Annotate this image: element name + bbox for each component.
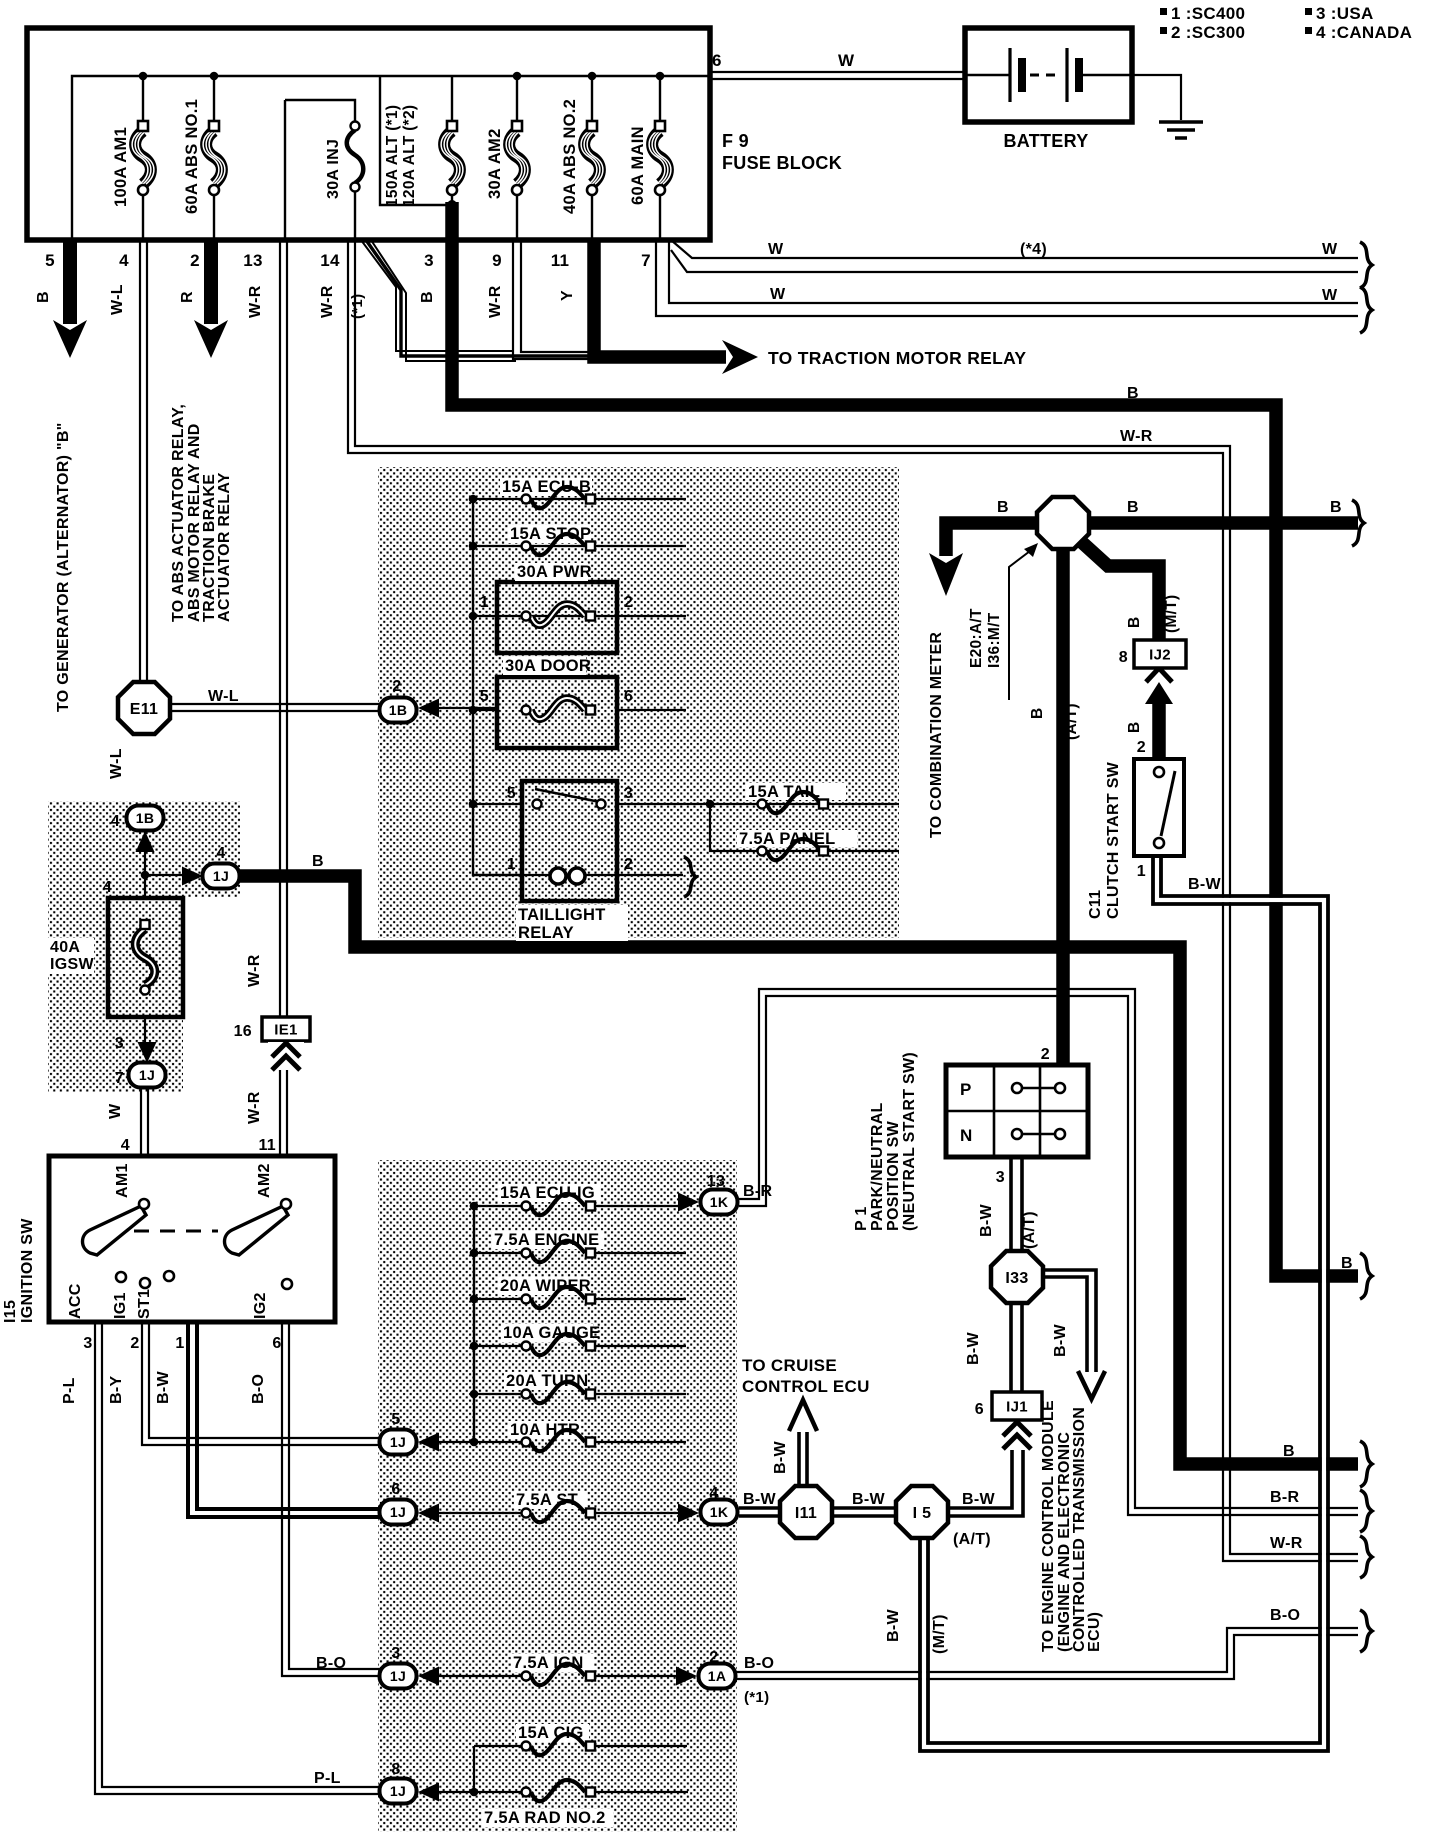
svg-text:CONTROL ECU: CONTROL ECU [742, 1377, 870, 1396]
taillight relay contact [535, 789, 600, 802]
arrow into 1J(7) [138, 1042, 157, 1063]
taillight relay coil [550, 868, 566, 884]
svg-text:TO TRACTION MOTOR RELAY: TO TRACTION MOTOR RELAY [768, 348, 1026, 368]
svg-text:E11: E11 [130, 701, 159, 718]
connector 1J pin4 [203, 864, 240, 889]
park/neutral position switch P1 [946, 1065, 1088, 1157]
fuse 100A AM1 [112, 121, 154, 207]
svg-text:B: B [1126, 617, 1143, 629]
svg-text:5: 5 [480, 688, 489, 705]
svg-text:PARK/NEUTRAL: PARK/NEUTRAL [869, 1102, 886, 1231]
arrow chevrons: IE1 feed [268, 1042, 304, 1068]
wire: thick B from ALT fuse pin3 to right edge and down [452, 202, 1358, 1276]
connector E11 [118, 682, 170, 734]
svg-text:15A CIG: 15A CIG [518, 1724, 584, 1742]
box 30A DOOR [497, 677, 617, 748]
fuse 10A HTR [508, 1421, 595, 1451]
svg-text:(M/T): (M/T) [1163, 594, 1180, 633]
arrow into 1B(2) [418, 699, 439, 718]
svg-text:W-L: W-L [108, 748, 125, 779]
fuse 15A STOP [508, 525, 595, 555]
svg-text:B-R: B-R [1270, 1489, 1299, 1506]
svg-text:I36:M/T: I36:M/T [986, 612, 1003, 668]
svg-text:B: B [997, 499, 1009, 516]
svg-text:(M/T): (M/T) [931, 1614, 948, 1654]
wire: B-W I33 right branch with down arrow (double) [1042, 1270, 1096, 1372]
wire: fuse drops inside block [143, 76, 660, 240]
svg-text:W-R: W-R [319, 285, 336, 318]
svg-text:BATTERY: BATTERY [1003, 131, 1088, 151]
wire: taillight relay coil row [522, 874, 683, 876]
svg-text:3: 3 [424, 251, 434, 270]
wire: panel fuse bus vertical [473, 499, 522, 875]
svg-text:6: 6 [272, 1335, 281, 1352]
arrow into 1K(4) [678, 1504, 699, 1523]
svg-text:B-W: B-W [1188, 876, 1221, 893]
stipple region: main fuse panel area [378, 467, 899, 938]
svg-text:20A TURN: 20A TURN [506, 1372, 588, 1390]
svg-text:1K: 1K [710, 1504, 729, 1520]
svg-text:B-W: B-W [852, 1491, 885, 1508]
svg-text:1: 1 [1137, 863, 1146, 880]
svg-text:W: W [770, 286, 786, 303]
label taillight relay [516, 905, 628, 942]
wire: 10A GAUGE row [474, 1345, 686, 1347]
fuse 60A MAIN [629, 121, 671, 205]
svg-text:13: 13 [707, 1173, 725, 1190]
legend [1160, 8, 1167, 15]
svg-text:3 :USA: 3 :USA [1316, 4, 1374, 23]
stipple region: ignition main fuse area (mid-left) [48, 801, 240, 1092]
svg-text:B-W: B-W [772, 1441, 789, 1474]
fuse 60A ABS NO.1 [183, 99, 225, 214]
connector 1J pin3 [380, 1664, 417, 1689]
svg-text:CLUTCH START SW: CLUTCH START SW [1105, 761, 1122, 919]
wire: 7.5A PANEL branch [710, 804, 899, 851]
wire: thick R arrow pin2 [204, 240, 218, 324]
wire: B-W ST1 to 1J(6) (heavy double) [188, 1322, 380, 1517]
svg-text:B: B [1127, 499, 1139, 516]
wire: B-W I11 up to cruise control arrow (double) [799, 1432, 807, 1487]
svg-text:W-R: W-R [246, 1091, 263, 1124]
svg-text:2: 2 [624, 856, 633, 873]
svg-text:16: 16 [234, 1023, 252, 1040]
svg-text:P 1: P 1 [853, 1206, 870, 1231]
stipple region: junction block area (bottom-left) [378, 1160, 737, 1832]
svg-text:40A: 40A [50, 939, 80, 956]
wire: 1B(4)/1J(4) junction node [145, 830, 184, 898]
svg-text:(A/T): (A/T) [953, 1531, 991, 1548]
svg-text:3: 3 [115, 1035, 124, 1052]
wire: 30A INJ branch, pin13 W-R exits [285, 100, 355, 240]
arrow into 1A(2) [676, 1667, 697, 1686]
wire: taillight relay contact row / 15A TAIL row [473, 803, 899, 805]
wire: W pin7 pair 2 to right edge [656, 240, 1358, 316]
svg-text:4: 4 [121, 1137, 130, 1154]
wire: 40A IGSW to 1J(7) [144, 995, 146, 1043]
ignition switch I15 [49, 1156, 335, 1322]
wire: 7.5A RAD NO.2 row from 1J(8) [438, 1791, 688, 1793]
svg-text:I11: I11 [795, 1505, 817, 1522]
svg-text:4: 4 [119, 251, 129, 270]
svg-text:4: 4 [103, 879, 112, 896]
svg-text:15A ECU-IG: 15A ECU-IG [500, 1184, 595, 1202]
svg-text:7.5A ST: 7.5A ST [516, 1491, 578, 1509]
svg-text:60A MAIN: 60A MAIN [629, 126, 647, 205]
continuation braces right edge [1360, 242, 1372, 288]
arrow into 1J(8) [418, 1783, 439, 1802]
svg-text:6: 6 [391, 1481, 400, 1498]
svg-text:B: B [1283, 1443, 1295, 1460]
fuse 30A INJ [325, 122, 363, 200]
ignition AM2 terminal + wiper [225, 1206, 289, 1255]
svg-text:6: 6 [975, 1401, 984, 1418]
wire: W-R pin9 (double) [513, 240, 590, 359]
wire: 30A PWR row [473, 615, 686, 617]
wire: 7.5A ENGINE row [474, 1252, 686, 1254]
svg-text:I15: I15 [2, 1300, 19, 1323]
svg-text:13: 13 [243, 251, 263, 270]
svg-text:30A AM2: 30A AM2 [486, 128, 504, 199]
svg-text:2: 2 [709, 1649, 718, 1666]
svg-text:TO COMBINATION METER: TO COMBINATION METER [928, 632, 945, 838]
svg-text:F 9: F 9 [722, 131, 749, 151]
svg-text:B: B [1341, 1255, 1353, 1272]
connector 1K pin4 [701, 1500, 738, 1525]
svg-text:W: W [107, 1103, 124, 1119]
svg-text:(*1): (*1) [744, 1689, 769, 1706]
svg-text:B-W: B-W [965, 1332, 982, 1365]
fuse 7.5A PANEL [737, 830, 857, 860]
wire: 15A ECU-IG row to 1K(13) [474, 1205, 678, 1207]
wire: 20A TURN row [474, 1393, 686, 1395]
svg-text:1J: 1J [213, 868, 229, 884]
wire: W-R pin13 continue IE1 to ignition AM2 (double) [280, 1070, 287, 1156]
connector I11 [780, 1486, 832, 1538]
svg-text:ACTUATOR RELAY: ACTUATOR RELAY [216, 472, 233, 622]
svg-text:IE1: IE1 [274, 1022, 297, 1039]
fuse 7.5A ENGINE [492, 1231, 604, 1262]
svg-text:7.5A ENGINE: 7.5A ENGINE [494, 1231, 599, 1249]
svg-text:I 5: I 5 [913, 1505, 932, 1522]
fuse 30A AM2 [486, 121, 528, 199]
arrow into 1J(4) [182, 867, 203, 886]
svg-text:E20:A/T: E20:A/T [968, 608, 985, 668]
svg-text:8: 8 [1119, 649, 1128, 666]
ground [1159, 122, 1203, 138]
wire: (*1) ALT option bundle [361, 240, 512, 351]
svg-text:1 :SC400: 1 :SC400 [1171, 4, 1245, 23]
wire: P-L ACC to 1J(8) (double) [95, 1322, 380, 1794]
fuse 150A/120A ALT [441, 121, 463, 195]
svg-text:30A INJ: 30A INJ [325, 139, 342, 199]
svg-text:1: 1 [480, 594, 489, 611]
fuse 15A ECU-B [500, 478, 595, 508]
wire: 20A WIPER row [474, 1298, 686, 1300]
svg-text:150A ALT (*1): 150A ALT (*1) [384, 105, 401, 207]
connector 1J pin8 [380, 1779, 417, 1804]
svg-text:(NEUTRAL START SW): (NEUTRAL START SW) [901, 1052, 918, 1231]
svg-text:B-O: B-O [744, 1655, 774, 1672]
svg-text:7.5A IGN: 7.5A IGN [513, 1654, 584, 1672]
wire: B-O IG2 to 1J(3) (double) [282, 1322, 380, 1676]
svg-text:7.5A PANEL: 7.5A PANEL [739, 830, 836, 848]
clutch start switch C11 [1134, 759, 1184, 856]
svg-text:W-L: W-L [109, 284, 126, 315]
svg-text:W-R: W-R [246, 954, 263, 987]
svg-text:4: 4 [111, 813, 120, 830]
wire: B-W IJ1 to I33 (double) [1011, 1302, 1022, 1392]
wire: bus inside fuse block [72, 76, 710, 240]
svg-text:2: 2 [624, 594, 633, 611]
wire: W pin6 fuse block to battery (double) [710, 72, 965, 79]
connector I33 [991, 1251, 1043, 1303]
wire: B-W (A/T) I5 up to IJ1 (double) [946, 1450, 1023, 1516]
svg-text:P: P [960, 1080, 972, 1099]
junction dots on bus [139, 72, 148, 81]
wire: 7.5A ST row 1J(6) to 1K(4) [438, 1512, 678, 1514]
svg-text:IJ2: IJ2 [1149, 647, 1171, 664]
wire: 15A ECU-B row [473, 498, 686, 500]
wire: ignition switch internal terminals [98, 1156, 287, 1322]
wire: CIG/RAD branch vertical [473, 1746, 475, 1792]
wire: W pin7 pair 1 to right edge [671, 240, 1358, 272]
continuation brace: relay coil output [684, 857, 696, 897]
svg-text:W: W [838, 51, 855, 70]
svg-text:B-O: B-O [1270, 1607, 1300, 1624]
svg-text:3: 3 [391, 1645, 400, 1662]
svg-text:B-W: B-W [743, 1491, 776, 1508]
svg-text:11: 11 [258, 1137, 276, 1154]
wire: 15A CIG row [474, 1745, 687, 1747]
svg-text:1B: 1B [136, 810, 155, 826]
svg-text:B: B [1126, 722, 1143, 734]
leader: E20/I36 annotation arrow [1009, 548, 1034, 700]
connector I5 [896, 1486, 948, 1538]
svg-text:ECU): ECU) [1086, 1612, 1103, 1652]
svg-text:FUSE BLOCK: FUSE BLOCK [722, 153, 842, 173]
wire: B-W clutch start sw pin1 loop to I5 M/T (heavy double) [924, 856, 1324, 1747]
svg-text:1: 1 [507, 856, 516, 873]
connector 1K pin13 [701, 1190, 738, 1215]
svg-text:B: B [35, 291, 52, 303]
svg-text:IGSW: IGSW [50, 956, 94, 973]
arrow: to combination meter [929, 553, 963, 596]
svg-text:TO GENERATOR (ALTERNATOR) "B": TO GENERATOR (ALTERNATOR) "B" [55, 422, 72, 712]
svg-text:2: 2 [392, 678, 401, 695]
wire: thick B from 1J(4) to right side down [237, 876, 1358, 1464]
junction dots: lower fuse bus [470, 1202, 479, 1211]
connector 1J pin5 [380, 1430, 417, 1455]
wire: B-R loop 1K(13) around park/neutral sw to right edge (double) [739, 989, 1358, 1515]
svg-text:B-Y: B-Y [108, 1376, 125, 1404]
wire: thick B generator arrow pin5 [63, 240, 77, 324]
svg-text:9: 9 [492, 251, 502, 270]
svg-text:40A ABS NO.2: 40A ABS NO.2 [561, 99, 579, 214]
wire: lower fuse bus vertical [473, 1206, 475, 1442]
fuse 30A DOOR [503, 657, 595, 719]
fuse 30A PWR [515, 563, 595, 625]
wire: B-W I33 to park/neutral pin3 (double) [1011, 1159, 1022, 1252]
svg-text:(A/T): (A/T) [1021, 1211, 1038, 1249]
svg-text:B: B [1330, 499, 1342, 516]
fuse 10A GAUGE [501, 1324, 600, 1355]
arrow into 1K(13) [678, 1193, 699, 1212]
arrow into 1J(3) [418, 1667, 439, 1686]
fuse 15A CIG [516, 1724, 595, 1755]
svg-text:B: B [312, 853, 324, 870]
svg-text:ACC: ACC [67, 1283, 84, 1319]
wire: ALT fuse branch box [380, 76, 452, 205]
svg-text:4: 4 [709, 1485, 718, 1502]
svg-text:RELAY: RELAY [518, 924, 574, 942]
40A IGSW fuse box [108, 898, 183, 1017]
svg-text:B: B [1127, 385, 1139, 402]
open arrow: I33 branch down [1078, 1371, 1105, 1399]
svg-text:TAILLIGHT: TAILLIGHT [518, 906, 606, 924]
taillight relay box [522, 781, 617, 901]
connector IJ2 [1134, 640, 1186, 668]
arrow chevrons: IJ1 feed [1000, 1423, 1036, 1449]
F9 fuse block outline [27, 28, 710, 240]
svg-text:(*4): (*4) [1020, 241, 1047, 258]
svg-text:W: W [768, 241, 784, 258]
svg-text:7: 7 [115, 1070, 124, 1087]
svg-text:1J: 1J [390, 1434, 406, 1450]
svg-text:B-W: B-W [978, 1204, 995, 1237]
svg-text:3: 3 [624, 785, 633, 802]
wire: battery to ground [1132, 75, 1181, 120]
wire: thick Y pin11 to traction motor relay [594, 240, 726, 357]
svg-text:1A: 1A [708, 1668, 727, 1684]
svg-text:P-L: P-L [61, 1377, 78, 1404]
svg-text:B-O: B-O [250, 1374, 267, 1404]
svg-text:IGNITION SW: IGNITION SW [19, 1218, 36, 1323]
svg-text:120A ALT (*2): 120A ALT (*2) [401, 105, 418, 207]
svg-text:ST1: ST1 [136, 1289, 153, 1319]
svg-text:(A/T): (A/T) [1063, 703, 1080, 740]
svg-text:4 :CANADA: 4 :CANADA [1316, 23, 1412, 42]
connector IJ1 [992, 1392, 1042, 1420]
arrow chevron + head: IJ2 feed [1146, 668, 1172, 682]
wire: thick B ground bus through octagon to right edge [946, 523, 1358, 556]
wire: 15A STOP row [473, 545, 686, 547]
svg-text:14: 14 [320, 251, 340, 270]
ignition AM1 terminal + wiper [83, 1206, 147, 1255]
svg-text:3: 3 [996, 1169, 1005, 1186]
junction dots: panel bus [469, 495, 478, 504]
fuse 15A TAIL [746, 783, 846, 813]
box 30A PWR [497, 582, 617, 653]
svg-text:TO ENGINE CONTROL MODULE: TO ENGINE CONTROL MODULE [1040, 1400, 1057, 1652]
svg-text:B-W: B-W [1052, 1324, 1069, 1357]
svg-text:W: W [1322, 287, 1338, 304]
svg-text:2 :SC300: 2 :SC300 [1171, 23, 1245, 42]
svg-text:6: 6 [624, 688, 633, 705]
svg-text:TO ABS ACTUATOR RELAY,: TO ABS ACTUATOR RELAY, [170, 404, 187, 622]
connector 1A pin2 [699, 1664, 736, 1689]
svg-text:AM1: AM1 [114, 1163, 131, 1198]
connector 1B pin2 [380, 698, 417, 723]
svg-text:I33: I33 [1005, 1270, 1028, 1287]
svg-text:B-O: B-O [316, 1655, 346, 1672]
svg-text:W-R: W-R [247, 285, 264, 318]
fuse 7.5A RAD NO.2 [482, 1780, 613, 1827]
wire: W-L pin4 down to E11 (double) [140, 240, 147, 683]
svg-text:B: B [1029, 708, 1046, 720]
fuse 20A WIPER [498, 1277, 595, 1308]
svg-text:11: 11 [551, 251, 570, 270]
svg-text:IJ1: IJ1 [1006, 1399, 1028, 1416]
svg-text:5: 5 [507, 785, 516, 802]
svg-text:15A TAIL: 15A TAIL [748, 783, 820, 801]
svg-text:1J: 1J [139, 1067, 155, 1083]
svg-text:W-R: W-R [1270, 1535, 1303, 1552]
wire: B-Y IG1 to 1J(5) (double) [142, 1322, 380, 1445]
arrow into 1J(6) [418, 1504, 439, 1523]
svg-text:W: W [1322, 241, 1338, 258]
connector 1J pin7 [129, 1063, 166, 1088]
svg-text:60A ABS NO.1: 60A ABS NO.1 [183, 99, 201, 214]
svg-text:2: 2 [190, 251, 200, 270]
svg-text:W-L: W-L [208, 688, 239, 705]
connector 1B pin4 [127, 806, 164, 831]
svg-text:POSITION SW: POSITION SW [885, 1120, 902, 1231]
svg-text:P-L: P-L [314, 1770, 341, 1787]
svg-text:W-R: W-R [1120, 428, 1153, 445]
wire: 30A DOOR row [473, 709, 686, 711]
wire: thick B octagon to IJ2 and clutch sw [1075, 536, 1159, 759]
fuse 15A ECU-IG [498, 1184, 600, 1215]
svg-text:W-R: W-R [487, 285, 504, 318]
wire: E11 to 1B(2) W-L (double) [170, 704, 379, 711]
svg-text:5: 5 [391, 1411, 400, 1428]
fuse 7.5A IGN [511, 1654, 595, 1685]
svg-text:1J: 1J [390, 1504, 406, 1520]
svg-text:3: 3 [83, 1335, 92, 1352]
fuse 40A ABS NO.2 [561, 99, 603, 214]
svg-text:4: 4 [216, 845, 225, 862]
svg-text:C11: C11 [1087, 890, 1104, 919]
svg-text:R: R [179, 291, 196, 303]
svg-text:B-R: B-R [743, 1183, 772, 1200]
open arrow: to cruise control ECU [789, 1400, 817, 1431]
svg-text:2: 2 [1137, 739, 1146, 756]
wire: thick B (A/T) octagon down to park/neutral pin2 [1056, 523, 1070, 1065]
svg-text:30A DOOR: 30A DOOR [505, 657, 591, 675]
wire: 7.5A IGN row 1J(3) to 1A(2) [438, 1675, 677, 1677]
connector junction (ground point) [1037, 497, 1089, 549]
svg-text:B-W: B-W [155, 1371, 172, 1404]
svg-text:B-W: B-W [962, 1491, 995, 1508]
svg-text:5: 5 [45, 251, 55, 270]
wire: 10A HTR row from 1J(5) [438, 1441, 686, 1443]
connector 1J pin6 [380, 1500, 417, 1525]
svg-text:B-W: B-W [885, 1609, 902, 1642]
svg-text:1J: 1J [390, 1783, 406, 1799]
svg-text:15A STOP: 15A STOP [510, 525, 591, 543]
fuse 7.5A ST [514, 1491, 595, 1522]
svg-text:Y: Y [559, 290, 576, 301]
wire: B-W 1K(4) to I11 to I5 (double) [739, 1508, 898, 1516]
arrow into 1B(4) [136, 831, 155, 852]
svg-text:10A HTR: 10A HTR [510, 1421, 580, 1439]
svg-text:IG1: IG1 [112, 1292, 129, 1319]
svg-text:100A AM1: 100A AM1 [112, 127, 130, 207]
svg-text:10A GAUGE: 10A GAUGE [503, 1324, 600, 1342]
svg-text:1B: 1B [389, 702, 408, 718]
wire: W 1J(7) to ignition AM1 (double) [141, 1087, 148, 1156]
